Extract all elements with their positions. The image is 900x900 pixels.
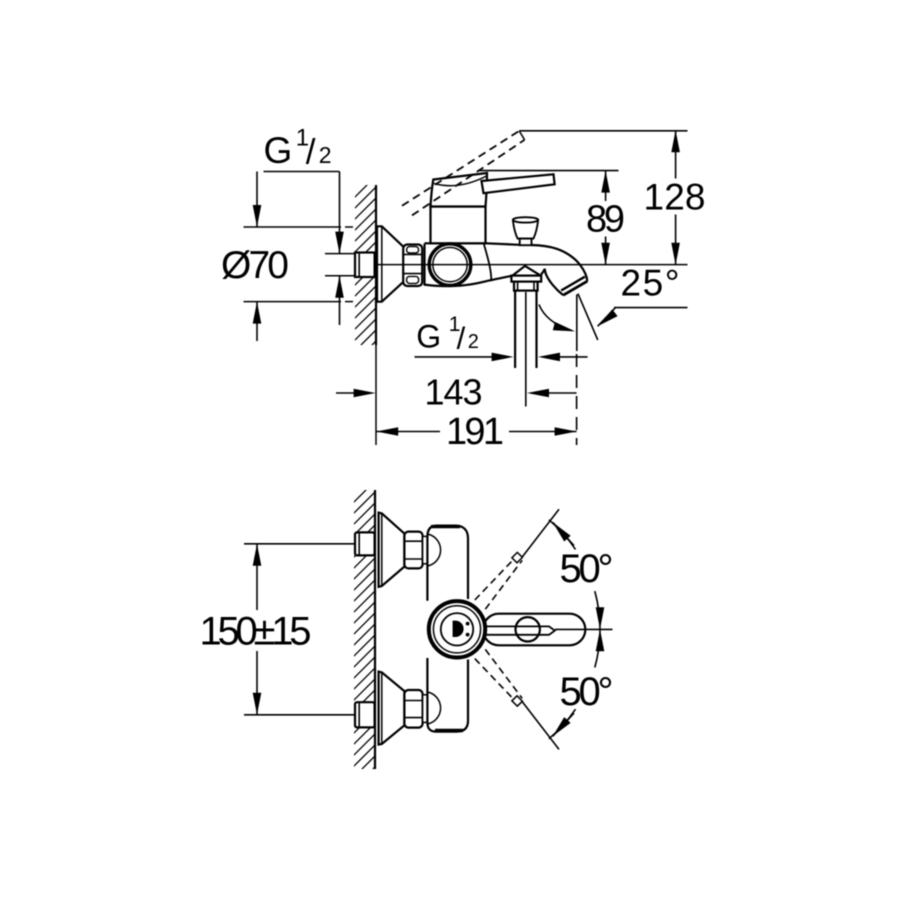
- svg-text:50°: 50°: [560, 547, 614, 591]
- svg-text:50°: 50°: [560, 670, 614, 714]
- svg-text:/: /: [457, 321, 466, 356]
- svg-text:150±15: 150±15: [200, 610, 312, 654]
- svg-text:2: 2: [319, 142, 332, 168]
- svg-text:2: 2: [468, 331, 479, 353]
- svg-text:128: 128: [644, 176, 706, 217]
- svg-text:G: G: [264, 130, 293, 171]
- svg-text:G: G: [416, 319, 441, 355]
- svg-text:89: 89: [586, 199, 625, 241]
- svg-text:143: 143: [425, 372, 483, 413]
- svg-text:Ø70: Ø70: [221, 244, 289, 287]
- svg-text:25°: 25°: [621, 263, 680, 304]
- svg-text:/: /: [306, 133, 316, 172]
- svg-text:191: 191: [446, 411, 504, 453]
